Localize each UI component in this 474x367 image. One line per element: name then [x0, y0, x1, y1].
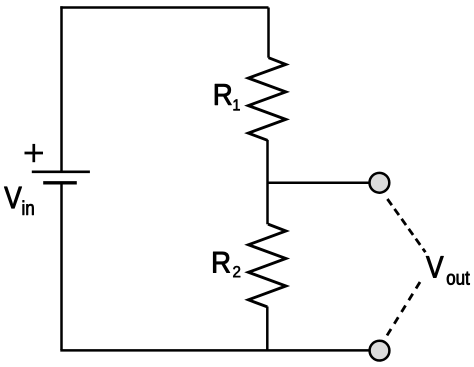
dashed lead to V_out (top): [387, 199, 425, 252]
label R2: [213, 252, 229, 273]
battery V_in (plates): [32, 172, 90, 183]
wire output tap horizontal: [268, 182, 370, 185]
wire R1 top lead: [267, 8, 270, 58]
wire left upper vertical: [60, 6, 63, 170]
resistor R1: [248, 58, 285, 141]
wire bottom horizontal: [60, 349, 369, 352]
wire R2 bottom lead: [266, 307, 269, 351]
wire middle vertical (R1 bottom to R2 top, node): [266, 140, 269, 224]
terminal top (output +): [370, 173, 390, 193]
battery positive terminal marker (+): [25, 144, 44, 162]
wire top horizontal: [60, 6, 268, 9]
label V_out: [426, 256, 443, 277]
label V_in: [4, 187, 21, 208]
dashed lead to V_out (bottom): [387, 282, 420, 336]
terminal bottom (output -): [370, 341, 390, 361]
resistor R2: [248, 224, 286, 307]
label R1: [215, 84, 231, 105]
wire left lower vertical: [60, 183, 63, 350]
